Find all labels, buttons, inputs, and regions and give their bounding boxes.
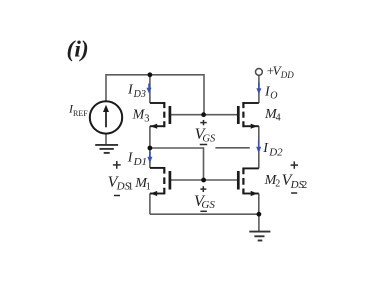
svg-text:GS: GS xyxy=(201,199,215,211)
svg-text:(i): (i) xyxy=(67,37,89,63)
svg-text:GS: GS xyxy=(202,133,216,144)
svg-text:D3: D3 xyxy=(133,89,146,100)
svg-text:DD: DD xyxy=(280,70,294,80)
svg-text:1: 1 xyxy=(146,181,151,192)
svg-text:3: 3 xyxy=(144,113,149,124)
svg-text:REF: REF xyxy=(73,109,88,118)
svg-text:D1: D1 xyxy=(133,156,147,168)
svg-text:4: 4 xyxy=(276,112,281,123)
svg-text:O: O xyxy=(270,91,277,102)
svg-text:D2: D2 xyxy=(268,146,283,158)
svg-text:1: 1 xyxy=(128,180,134,192)
svg-text:2: 2 xyxy=(302,179,308,191)
svg-text:2: 2 xyxy=(275,178,280,189)
